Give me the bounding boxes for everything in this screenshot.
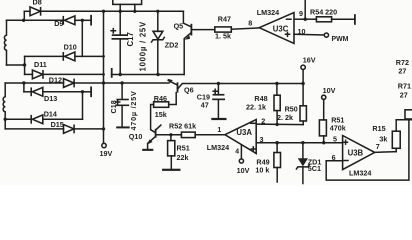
wire R54 to tie stub bbox=[332, 18, 355, 20]
wire pin 9 vertical from top edge bbox=[304, 0, 306, 19]
node R49 top bbox=[275, 141, 278, 144]
svg-text:22. 1k: 22. 1k bbox=[246, 103, 266, 112]
wire jog down to D13 line bbox=[23, 83, 25, 92]
node D10 line end bbox=[102, 55, 105, 58]
diode D15 bbox=[5, 125, 103, 134]
tie-point bar (D9 line end) bbox=[90, 15, 92, 26]
diode D13 bbox=[24, 87, 83, 96]
plus sign U3A pin3 input bbox=[251, 147, 255, 151]
wire R15 top to right edge bbox=[396, 119, 412, 121]
svg-text:D11: D11 bbox=[34, 60, 47, 69]
diode D14 bbox=[5, 115, 82, 124]
svg-text:Q5: Q5 bbox=[174, 22, 184, 31]
wire D13 node down to D14 line bbox=[82, 92, 84, 120]
svg-text:LM324: LM324 bbox=[207, 143, 229, 152]
wire U3A pin3 line to U3B pin 5 bbox=[256, 142, 342, 144]
node C17 bottom on rail A bbox=[119, 73, 122, 76]
svg-text:D15: D15 bbox=[51, 120, 64, 129]
svg-text:PWM: PWM bbox=[332, 36, 349, 43]
svg-text:5C1: 5C1 bbox=[308, 164, 321, 173]
wire U3C pin 9 input bbox=[294, 18, 305, 20]
op-amp U3A (output on left) bbox=[225, 120, 256, 154]
terminal 10V (R51) bbox=[322, 95, 326, 99]
node R51 470k bottom bbox=[322, 141, 325, 144]
svg-text:D10: D10 bbox=[64, 43, 77, 52]
resistor R50 bbox=[300, 106, 306, 121]
wire R46 left lead down to Q10 base bbox=[151, 105, 155, 133]
svg-text:3k: 3k bbox=[379, 135, 387, 144]
wire 16V node up to terminal bbox=[302, 70, 304, 84]
wire Q5 base to R47 bbox=[192, 29, 215, 31]
plus sign U3B pin5 input bbox=[344, 140, 348, 144]
node bus/19V rail bbox=[102, 10, 105, 13]
wire W2 bottom jog down to D15 line bbox=[4, 119, 6, 129]
wire feedback loop pin6 to output node bbox=[326, 120, 409, 180]
transformer winding W1 bbox=[4, 20, 6, 65]
wire top bus y=11.3 D8 cathode to Q5 collector corner bbox=[41, 10, 184, 12]
node pin 9 bbox=[304, 18, 307, 21]
svg-text:C18: C18 bbox=[109, 100, 118, 113]
node C19 top bbox=[217, 82, 220, 85]
node rail B / 19V rail bbox=[102, 81, 105, 84]
tie-point bar (R54 line end) bbox=[354, 14, 356, 25]
tie-point bar (common rail A start) bbox=[111, 68, 113, 78]
node 16V junction bbox=[301, 82, 304, 85]
node regulator left lead / C17 bbox=[119, 10, 122, 13]
svg-text:U3A: U3A bbox=[236, 128, 252, 137]
resistor R54 bbox=[316, 17, 331, 22]
resistor R15 bbox=[392, 120, 400, 152]
svg-text:LM324: LM324 bbox=[349, 168, 371, 177]
svg-text:10V: 10V bbox=[237, 166, 250, 175]
wire R52 to U3A output pin 1 bbox=[195, 134, 225, 136]
zener ZD2 bbox=[152, 11, 165, 74]
svg-text:16V: 16V bbox=[303, 56, 316, 65]
terminal PWM bbox=[324, 33, 328, 37]
node R48 top bbox=[275, 82, 278, 85]
diode D9 bbox=[24, 16, 83, 25]
svg-text:U3C: U3C bbox=[273, 25, 289, 34]
svg-text:Q10: Q10 bbox=[129, 132, 143, 141]
op-amp U3B bbox=[343, 136, 375, 170]
svg-text:R48: R48 bbox=[254, 94, 267, 103]
capacitor C17 bbox=[112, 11, 128, 74]
svg-text:10 k: 10 k bbox=[255, 165, 269, 174]
node D9 anode junction bbox=[81, 19, 84, 22]
terminal 10V (U3A pin 4) bbox=[239, 159, 243, 163]
svg-text:2. 2k: 2. 2k bbox=[277, 113, 293, 122]
wire winding W1 top to node bbox=[7, 19, 24, 21]
svg-text:8: 8 bbox=[248, 19, 252, 28]
wire pin 9 to R54 bbox=[305, 18, 316, 20]
terminal 16V bbox=[301, 65, 305, 69]
svg-text:D12: D12 bbox=[49, 76, 62, 85]
svg-text:3: 3 bbox=[260, 135, 264, 144]
plus sign C18 bbox=[116, 100, 120, 104]
node W2 bottom bbox=[3, 118, 6, 121]
plus sign C19 bbox=[213, 89, 217, 93]
plus sign U3C pin10 input bbox=[285, 32, 289, 36]
resistor R71 box (cropped at edge) bbox=[405, 110, 412, 119]
wire U3A pin 2 line bbox=[256, 123, 303, 126]
wire D13 node to tie stub bbox=[83, 91, 91, 93]
wire winding W1 bottom to node bbox=[7, 64, 25, 66]
wire Q6 collector line to 16V node bbox=[218, 83, 303, 85]
svg-text:10V: 10V bbox=[323, 86, 336, 95]
node C18 top on rail B bbox=[120, 81, 123, 84]
capacitor C19 bbox=[211, 84, 226, 121]
node R51 top bbox=[169, 133, 172, 136]
wire rail A (common) bbox=[112, 74, 184, 76]
svg-text:470k: 470k bbox=[330, 124, 346, 133]
wire U3B pin 6 bbox=[326, 160, 342, 162]
wire regulator right lead bbox=[134, 4, 136, 11]
resistor R49 bbox=[274, 143, 281, 182]
wire R47 to U3C output pin 8 bbox=[231, 28, 259, 29]
svg-text:R52 61k: R52 61k bbox=[169, 121, 196, 130]
wire rail B (19V to Q6 emitter) bbox=[104, 82, 169, 84]
node regulator right lead bbox=[133, 10, 136, 13]
regulator box U (top, cropped) bbox=[113, 0, 142, 4]
resistor R47 bbox=[215, 27, 232, 32]
resistor R51 470k bbox=[319, 99, 326, 142]
wire jog up to D8 line bbox=[23, 11, 25, 20]
svg-text:R51: R51 bbox=[177, 144, 190, 153]
wire D9 node to tie stub bbox=[82, 19, 90, 21]
svg-text:R50: R50 bbox=[285, 104, 298, 113]
svg-text:27: 27 bbox=[400, 90, 408, 99]
svg-text:2: 2 bbox=[261, 117, 265, 126]
diode D11 bbox=[25, 70, 104, 79]
svg-text:R71: R71 bbox=[398, 81, 411, 90]
svg-text:4: 4 bbox=[235, 149, 239, 156]
wire jog W1 bottom node up to D10 line and down to D11 line bbox=[24, 56, 26, 74]
svg-text:D14: D14 bbox=[44, 110, 57, 119]
terminal 19V bbox=[102, 143, 106, 147]
svg-text:9: 9 bbox=[299, 9, 303, 18]
node R48 bottom on pin 2 line bbox=[275, 123, 278, 126]
op-amp U3C (output on left) bbox=[259, 13, 294, 44]
transistor Q10 bbox=[142, 125, 161, 151]
capacitor C18 bbox=[116, 83, 130, 128]
svg-text:Q6: Q6 bbox=[184, 85, 194, 94]
svg-text:5: 5 bbox=[333, 134, 337, 143]
plus sign C17 bbox=[111, 29, 115, 33]
svg-text:D9: D9 bbox=[54, 19, 63, 28]
wire Q10 collector line to R52 bbox=[157, 134, 182, 136]
node W1 bottom bbox=[23, 63, 26, 66]
wire U3B pin 7 output to R15 bbox=[375, 151, 397, 154]
diode D10 bbox=[25, 52, 104, 61]
wire R50 bottom to pin 2 line bbox=[302, 121, 304, 125]
node D11 line end bbox=[102, 73, 105, 76]
svg-text:D13: D13 bbox=[44, 94, 57, 103]
svg-text:10: 10 bbox=[298, 27, 306, 36]
svg-text:6: 6 bbox=[332, 153, 336, 162]
svg-text:19V: 19V bbox=[100, 149, 113, 158]
svg-text:R54 220: R54 220 bbox=[310, 8, 337, 17]
svg-text:U3B: U3B bbox=[348, 149, 364, 158]
node ZD2 bottom on rail A bbox=[156, 73, 159, 76]
resistor R51 22k bbox=[162, 135, 180, 171]
svg-text:D8: D8 bbox=[33, 0, 42, 7]
transformer winding W2 bbox=[3, 83, 5, 119]
svg-text:R46: R46 bbox=[154, 94, 167, 103]
transistor Q5 bbox=[183, 11, 192, 74]
svg-text:C17: C17 bbox=[126, 32, 135, 46]
wire D9 node down to D10 line bbox=[81, 20, 83, 56]
wire U3A pin 4 stub bbox=[240, 145, 242, 159]
svg-text:1: 1 bbox=[217, 127, 221, 134]
svg-text:1000µ / 25V: 1000µ / 25V bbox=[139, 21, 148, 72]
node D13 anode junction bbox=[81, 90, 84, 93]
svg-text:ZD2: ZD2 bbox=[165, 41, 179, 50]
svg-text:27: 27 bbox=[398, 67, 406, 76]
node ZD2 top on bus bbox=[156, 10, 159, 13]
wire regulator left lead bbox=[119, 4, 121, 11]
transistor Q6 bbox=[168, 79, 219, 105]
node D12 line jog bbox=[22, 81, 25, 84]
diode D8 bbox=[24, 7, 40, 16]
resistor R52 bbox=[181, 132, 195, 138]
svg-text:15k: 15k bbox=[155, 110, 167, 119]
resistor R46 bbox=[154, 102, 169, 108]
node W1 top bbox=[22, 19, 25, 22]
resistor R48 bbox=[274, 84, 280, 125]
zener ZD1 bbox=[296, 143, 309, 184]
tie-point bar (D13 line end) bbox=[90, 87, 92, 98]
wire U3C pin 10 input bbox=[294, 33, 324, 36]
svg-text:R47: R47 bbox=[218, 15, 231, 24]
wire 19V vertical rail bbox=[103, 11, 105, 143]
svg-text:470µ /25V: 470µ /25V bbox=[129, 90, 138, 130]
wire 16V node down to R50 bbox=[302, 84, 304, 106]
svg-text:LM324: LM324 bbox=[257, 8, 279, 17]
diode D12 bbox=[5, 79, 103, 88]
minus sign U3B pin6 input bbox=[344, 160, 348, 162]
svg-text:22k: 22k bbox=[177, 153, 189, 162]
svg-text:47: 47 bbox=[201, 101, 209, 110]
svg-text:1. 5k: 1. 5k bbox=[215, 31, 231, 40]
svg-text:R72: R72 bbox=[396, 58, 409, 67]
node D15 line end bbox=[102, 127, 105, 130]
node ZD1 top bbox=[301, 141, 304, 144]
minus sign U3C pin9 input bbox=[287, 18, 292, 20]
svg-text:R15: R15 bbox=[372, 124, 385, 133]
minus sign U3A pin2 input bbox=[251, 122, 255, 124]
